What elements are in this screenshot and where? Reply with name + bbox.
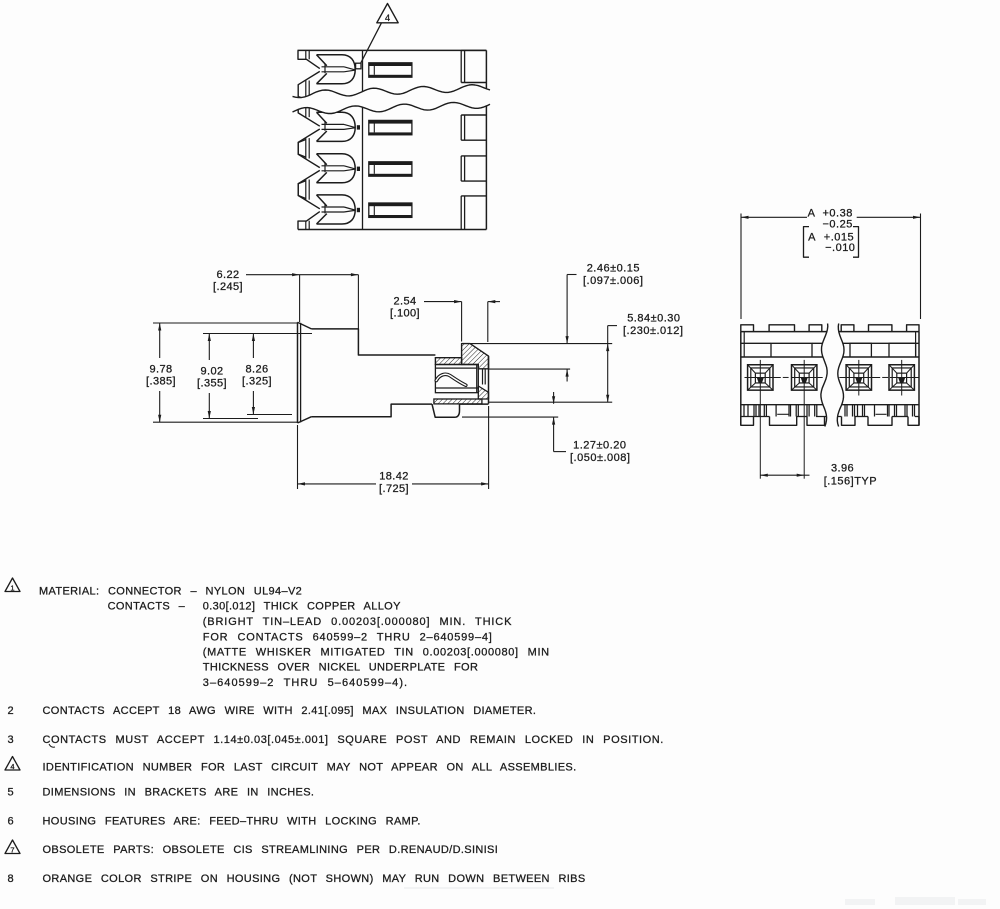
upper band shelf line xyxy=(741,342,771,344)
svg-text:CONTACTS MUST ACCEPT 1.14±0.03: CONTACTS MUST ACCEPT 1.14±0.03[.045±.001… xyxy=(43,734,664,746)
dim 9.02 extension lines xyxy=(203,333,312,335)
svg-text:THICKNESS OVER NICKEL UNDERPLA: THICKNESS OVER NICKEL UNDERPLATE FOR xyxy=(203,661,478,673)
svg-text:5.84±0.30: 5.84±0.30 xyxy=(627,313,680,325)
svg-text:2: 2 xyxy=(8,705,14,717)
dim 6.22 xyxy=(246,274,358,276)
break line upper (top view) xyxy=(293,85,491,98)
dim 9.78 xyxy=(159,323,161,358)
mounting feet (bottom tabs) xyxy=(741,417,754,426)
dim A inches bracket xyxy=(804,227,810,258)
contact 2 strain-relief wings xyxy=(298,98,320,126)
top view body right edge xyxy=(485,50,487,229)
identification mark square xyxy=(356,63,361,69)
svg-text:(MATTE WHISKER MITIGATED TIN 0: (MATTE WHISKER MITIGATED TIN 0.00203[.00… xyxy=(203,647,550,659)
svg-text:FOR CONTACTS 640599–2 THRU 2–6: FOR CONTACTS 640599–2 THRU 2–640599–4] xyxy=(203,631,493,643)
top view bottom-left tab + wire funnel 4 xyxy=(298,212,320,230)
break band (front view) xyxy=(821,324,844,427)
bottom band ribs xyxy=(743,405,745,417)
svg-text:2.54: 2.54 xyxy=(393,296,416,308)
dim 6.22 extension lines xyxy=(299,275,301,322)
svg-text:[.100]: [.100] xyxy=(390,308,420,320)
svg-text:5: 5 xyxy=(8,787,14,799)
svg-text:3–640599–2 THRU 5–640599–4).: 3–640599–2 THRU 5–640599–4). xyxy=(203,677,408,689)
svg-text:[.325]: [.325] xyxy=(242,376,272,388)
svg-text:8: 8 xyxy=(8,873,14,885)
svg-text:−0.25: −0.25 xyxy=(823,219,853,231)
break line left (front view) xyxy=(821,324,828,427)
dim 2.54 extension lines xyxy=(461,302,463,342)
contact 4 strain-relief wings xyxy=(298,181,320,209)
contact cavity box xyxy=(435,365,478,393)
svg-text:0.30[.012] THICK COPPER ALLOY: 0.30[.012] THICK COPPER ALLOY xyxy=(203,601,401,613)
polarizing tabs (top) xyxy=(741,325,754,332)
contact 3 strain-relief wings xyxy=(298,140,320,168)
contact window 1 xyxy=(369,63,412,77)
svg-text:A: A xyxy=(808,208,816,220)
svg-text:CONTACTS ACCEPT 18 AWG WIRE WI: CONTACTS ACCEPT 18 AWG WIRE WITH 2.41[.0… xyxy=(43,705,537,717)
svg-text:[.050±.008]: [.050±.008] xyxy=(570,452,630,464)
svg-text:6: 6 xyxy=(8,816,14,828)
body bottom edge xyxy=(311,404,432,417)
nose right edge xyxy=(488,356,490,404)
svg-text:1: 1 xyxy=(10,583,14,592)
break line lower (top view) xyxy=(293,102,491,113)
dim 2.46 xyxy=(566,275,568,344)
dim A xyxy=(741,216,807,218)
crimp contact 2 (top view) xyxy=(317,112,356,141)
break line right (front view) xyxy=(837,324,844,427)
svg-text:(BRIGHT TIN–LEAD 0.00203[.0000: (BRIGHT TIN–LEAD 0.00203[.000080] MIN. T… xyxy=(203,616,512,628)
upper band windows xyxy=(771,343,812,357)
note 4 flag triangle xyxy=(377,4,398,23)
svg-text:7: 7 xyxy=(10,845,14,854)
svg-text:6.22: 6.22 xyxy=(216,269,239,281)
right rib slot 2 xyxy=(460,115,462,140)
svg-text:OBSOLETE PARTS: OBSOLETE CIS S: OBSOLETE PARTS: OBSOLETE CIS STREAMLININ… xyxy=(43,844,499,856)
dim 5.84 extension line xyxy=(489,401,612,403)
dim 1.27 xyxy=(553,392,555,404)
upper band bottom line xyxy=(741,356,919,358)
break band (top view) xyxy=(293,85,491,114)
dim 8.26 xyxy=(252,334,254,359)
svg-text:[.355]: [.355] xyxy=(197,378,227,390)
dim 9.02 xyxy=(208,334,210,361)
dim A extension lines xyxy=(740,214,742,320)
svg-text:A: A xyxy=(808,232,816,244)
svg-text:IDENTIFICATION NUMBER FOR LAST: IDENTIFICATION NUMBER FOR LAST CIRCUIT M… xyxy=(43,762,577,774)
contact 1 strain-relief wings xyxy=(298,71,320,99)
svg-text:4: 4 xyxy=(10,762,14,771)
crimp contact 3 (top view) xyxy=(317,154,356,183)
contact window 3 xyxy=(369,162,412,176)
svg-text:[.097±.006]: [.097±.006] xyxy=(583,275,643,287)
dim 3.96 xyxy=(760,474,804,476)
top view left wall ribs xyxy=(305,50,307,59)
body top edge xyxy=(311,329,435,355)
right rib slot 4 xyxy=(460,196,462,230)
svg-text:[.725]: [.725] xyxy=(379,483,409,495)
right rib slot 1 xyxy=(460,50,462,82)
svg-text:[.230±.012]: [.230±.012] xyxy=(623,325,683,337)
top view housing divider wall xyxy=(362,50,364,229)
svg-text:CONTACTS –: CONTACTS – xyxy=(108,601,186,613)
contact cavity 3 (front view) xyxy=(846,365,871,390)
contact window 2 xyxy=(369,120,412,134)
right rib slot 3 xyxy=(460,156,462,181)
top view body top edge xyxy=(298,49,487,51)
dim 5.84 xyxy=(607,326,609,403)
svg-text:3.96: 3.96 xyxy=(831,463,854,475)
note 4 flag triangle xyxy=(5,757,20,771)
bottom band lower line xyxy=(741,416,770,418)
svg-text:9.02: 9.02 xyxy=(200,366,223,378)
dim 18.42 extension lines xyxy=(297,425,299,489)
note 4 flag leader line xyxy=(361,23,382,64)
horizontal center line xyxy=(745,376,781,378)
front view left edge xyxy=(740,332,742,426)
dim 2.54 xyxy=(424,301,462,303)
svg-text:−.010: −.010 xyxy=(825,242,855,254)
front view right edge xyxy=(918,332,920,426)
svg-text:18.42: 18.42 xyxy=(379,471,409,483)
contact spring (side view) xyxy=(436,374,466,385)
hatched bottom bar (section) xyxy=(434,399,482,404)
svg-text:2.46±0.15: 2.46±0.15 xyxy=(587,263,640,275)
top view body bottom edge xyxy=(298,229,486,231)
bottom band top line xyxy=(741,404,919,406)
contact cavity 2 (front view) xyxy=(792,365,817,390)
svg-text:8.26: 8.26 xyxy=(245,364,268,376)
faint cut-off marks bottom edge xyxy=(404,887,986,905)
svg-text:HOUSING FEATURES ARE: FEED–THR: HOUSING FEATURES ARE: FEED–THRU WITH LOC… xyxy=(43,816,421,828)
svg-text:1.27±0.20: 1.27±0.20 xyxy=(573,440,626,452)
note 7 flag triangle xyxy=(5,840,20,854)
svg-text:9.78: 9.78 xyxy=(149,364,172,376)
dim 8.26 extension line xyxy=(247,414,292,416)
hatched top wall (section) xyxy=(462,344,489,369)
crimp contact 4 (top view) xyxy=(317,195,356,224)
dim 2.46 extension lines xyxy=(470,343,612,345)
svg-text:MATERIAL: CONNECTOR – NYLON UL: MATERIAL: CONNECTOR – NYLON UL94–V2 xyxy=(39,585,302,597)
contact cavity 1 (front view) xyxy=(748,365,773,390)
scan artifact under note 3 xyxy=(49,744,55,747)
dim 18.42 xyxy=(298,483,377,485)
dim 9.78 extension lines xyxy=(153,322,298,324)
svg-text:DIMENSIONS IN BRACKETS ARE IN: DIMENSIONS IN BRACKETS ARE IN INCHES. xyxy=(43,787,315,799)
mounting flange xyxy=(297,322,299,423)
note 1 flag triangle xyxy=(5,578,20,592)
svg-text:[.245]: [.245] xyxy=(213,281,243,293)
front view inner wall lines xyxy=(743,332,745,357)
bottom band inner slots xyxy=(777,413,788,415)
crimp contact 1 (top view) xyxy=(317,55,356,84)
front view top edge xyxy=(741,331,919,333)
locking ramp bump xyxy=(432,404,460,417)
top view top-left tab + wire funnel 1 xyxy=(298,50,320,68)
svg-text:ORANGE COLOR STRIPE ON HOUSING: ORANGE COLOR STRIPE ON HOUSING (NOT SHOW… xyxy=(43,873,586,885)
svg-text:[.385]: [.385] xyxy=(146,376,176,388)
contact cavity 4 (front view) xyxy=(889,365,914,390)
svg-text:4: 4 xyxy=(385,13,390,24)
svg-text:3: 3 xyxy=(8,734,14,746)
hatched top bar (section) xyxy=(435,358,461,365)
hatched lower corner (section) xyxy=(478,386,488,399)
svg-text:[.156]TYP: [.156]TYP xyxy=(824,476,877,488)
contact window 4 xyxy=(369,203,412,217)
dim 1.27 extension line xyxy=(462,416,558,418)
